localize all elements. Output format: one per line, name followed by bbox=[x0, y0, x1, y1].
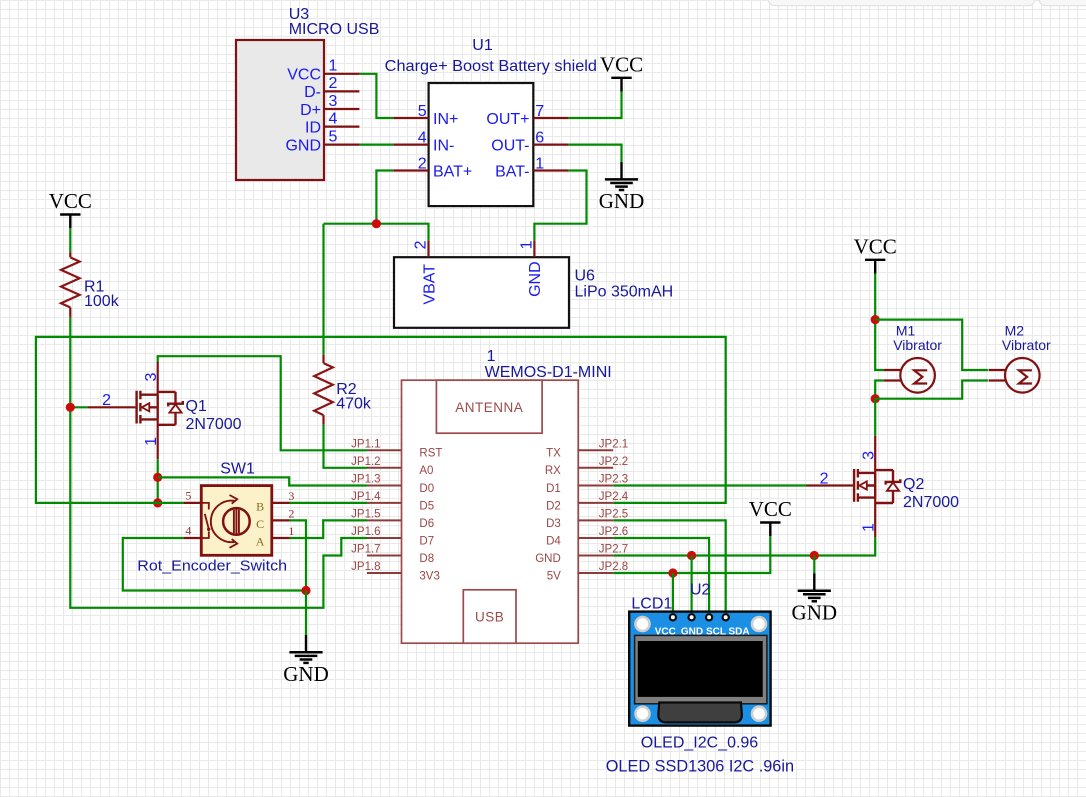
WEMOS pin JP1.4 D5 bbox=[351, 491, 434, 512]
svg-text:BAT-: BAT- bbox=[495, 163, 529, 180]
wire M1 low side bbox=[875, 381, 884, 399]
svg-text:4: 4 bbox=[329, 110, 338, 127]
svg-text:5V: 5V bbox=[547, 570, 561, 582]
wire Q1 gate wire bbox=[70, 406, 88, 408]
wire R1 to D7 net bbox=[70, 318, 367, 608]
wire JP2.3 to Q2 gate bbox=[613, 484, 806, 486]
svg-text:LiPo 350mAH: LiPo 350mAH bbox=[575, 284, 674, 301]
wire Q2 source to ground line bbox=[613, 537, 875, 555]
svg-text:100k: 100k bbox=[84, 293, 120, 310]
wire U1 OUT- to GND bbox=[569, 145, 622, 162]
svg-text:LCD1: LCD1 bbox=[631, 596, 672, 613]
toolbar remnant top edge bbox=[769, 0, 1086, 6]
connector U3 MICRO USB body bbox=[236, 6, 379, 180]
OLED screen frame bbox=[635, 635, 767, 703]
node Q1 source junction A bbox=[153, 473, 162, 482]
U1 pin 1 BAT- bbox=[495, 155, 569, 180]
svg-text:D6: D6 bbox=[419, 518, 434, 530]
OLED pin labels bbox=[655, 626, 750, 637]
U1 pin 7 OUT+ bbox=[486, 103, 568, 128]
wire Q1 source down bbox=[157, 459, 159, 503]
U3 pin 1 VCC bbox=[287, 58, 359, 84]
node 5V rail junction (OLED VCC) bbox=[668, 568, 677, 577]
WEMOS pin JP2.3 D1 bbox=[546, 474, 628, 495]
svg-text:A: A bbox=[256, 535, 265, 549]
wire VCC to JP2.8 rail bbox=[613, 536, 770, 573]
svg-text:GND: GND bbox=[599, 189, 645, 213]
U1 pin 6 OUT- bbox=[491, 130, 568, 155]
display LCD1 OLED module board bbox=[629, 612, 770, 726]
svg-text:GND: GND bbox=[681, 626, 703, 637]
wire motor rail to Q2 drain bbox=[874, 399, 876, 436]
wire JP2.5 to OLED SDA bbox=[613, 520, 726, 614]
wire SW1 C to ground bus bbox=[290, 520, 307, 590]
svg-text:D0: D0 bbox=[419, 483, 434, 495]
svg-text:1: 1 bbox=[487, 348, 496, 365]
Q1 pin 1 (source) bbox=[143, 419, 160, 459]
svg-text:B: B bbox=[256, 500, 264, 514]
U1 pin 4 IN- bbox=[393, 130, 454, 155]
U3 pin 3 D+ bbox=[300, 93, 359, 119]
node motor VCC junction bbox=[871, 315, 880, 324]
svg-text:4: 4 bbox=[185, 524, 191, 538]
svg-text:Vibrator: Vibrator bbox=[893, 337, 942, 353]
WEMOS pin JP2.6 D4 bbox=[546, 526, 628, 547]
svg-text:RX: RX bbox=[545, 465, 561, 477]
wire BAT+ rail to R2 bbox=[322, 224, 324, 355]
ground symbol GND (Q2/logic) bbox=[792, 573, 838, 624]
power symbol VCC (U1 output) bbox=[600, 52, 643, 91]
svg-text:D+: D+ bbox=[300, 102, 321, 119]
WEMOS pin JP2.4 D2 bbox=[546, 491, 629, 512]
svg-text:U1: U1 bbox=[472, 37, 493, 54]
svg-text:ID: ID bbox=[305, 119, 321, 136]
svg-text:TX: TX bbox=[546, 448, 561, 460]
svg-text:1: 1 bbox=[288, 524, 294, 538]
svg-text:IN+: IN+ bbox=[433, 111, 458, 128]
svg-text:MICRO USB: MICRO USB bbox=[289, 21, 380, 38]
svg-text:3: 3 bbox=[143, 373, 160, 382]
U3 pin 4 ID bbox=[305, 110, 359, 136]
OLED connector bbox=[658, 703, 742, 723]
node motor low junction bbox=[871, 394, 880, 403]
svg-text:1: 1 bbox=[535, 155, 544, 172]
power symbol VCC (motor supply) bbox=[854, 234, 897, 273]
resistor R2 470k bbox=[314, 355, 372, 425]
svg-text:2: 2 bbox=[820, 470, 829, 487]
node Q1 gate junction bbox=[66, 403, 75, 412]
svg-text:5: 5 bbox=[185, 489, 191, 503]
svg-text:GND: GND bbox=[283, 662, 329, 686]
svg-text:SW1: SW1 bbox=[220, 461, 255, 478]
wire R2 to JP1.2 bbox=[324, 425, 368, 468]
svg-text:2: 2 bbox=[413, 240, 430, 249]
svg-text:Q2: Q2 bbox=[903, 476, 924, 493]
svg-text:JP2.1: JP2.1 bbox=[599, 439, 628, 451]
Q1 pin 3 (drain) bbox=[143, 362, 160, 395]
svg-text:SCL: SCL bbox=[706, 626, 726, 637]
svg-text:GND: GND bbox=[535, 553, 561, 565]
wire motor top loop to M2 bbox=[875, 320, 988, 370]
svg-text:D3: D3 bbox=[546, 518, 561, 530]
svg-text:D2: D2 bbox=[546, 500, 561, 512]
U1 pin 2 BAT+ bbox=[393, 155, 472, 180]
transistor Q2 2N7000 bbox=[854, 469, 959, 511]
svg-text:5: 5 bbox=[418, 103, 427, 120]
svg-text:VBAT: VBAT bbox=[421, 264, 438, 305]
motor M1 Vibrator bbox=[884, 322, 942, 392]
SW1 push switch bbox=[201, 503, 210, 538]
transistor Q1 2N7000 bbox=[137, 391, 242, 433]
SW1 knob bbox=[211, 495, 250, 548]
wire U1 OUT+ to VCC bbox=[569, 92, 622, 119]
svg-text:Rot_Encoder_Switch: Rot_Encoder_Switch bbox=[137, 557, 287, 574]
wire U1 BAT- to U6 GND bbox=[534, 171, 586, 241]
SW1 pin 3 (B) bbox=[256, 489, 294, 514]
battery U6 LiPo 350mAH body bbox=[394, 257, 673, 328]
power symbol VCC (R1 pull-up) bbox=[49, 189, 92, 228]
svg-text:5: 5 bbox=[329, 128, 338, 145]
wire bus SW1/Q1 to JP2.4 bbox=[36, 337, 726, 503]
svg-text:7: 7 bbox=[535, 103, 544, 120]
svg-text:VCC: VCC bbox=[655, 626, 676, 637]
WEMOS pin JP2.8 5V bbox=[547, 561, 629, 582]
U6 pin 1 GND bbox=[518, 240, 544, 297]
svg-text:JP1.6: JP1.6 bbox=[351, 526, 380, 538]
svg-text:3: 3 bbox=[329, 93, 338, 110]
svg-text:JP2.2: JP2.2 bbox=[599, 456, 628, 468]
wire VCC to motor rail bbox=[875, 274, 884, 371]
module U? WEMOS-D1-MINI body bbox=[402, 348, 612, 643]
node Q1 source junction B bbox=[153, 498, 162, 507]
svg-text:2N7000: 2N7000 bbox=[186, 416, 242, 433]
svg-text:C: C bbox=[256, 517, 264, 531]
svg-text:JP2.8: JP2.8 bbox=[599, 561, 628, 573]
WEMOS pin JP1.1 RST bbox=[351, 439, 442, 460]
svg-text:JP1.7: JP1.7 bbox=[351, 544, 380, 556]
SW1 pin 2 (C) bbox=[256, 507, 294, 532]
svg-text:4: 4 bbox=[418, 130, 427, 147]
Q2 pin 2 (gate) bbox=[807, 470, 853, 487]
Q1 pin 2 (gate) bbox=[88, 392, 135, 409]
wire OLED VCC riser bbox=[672, 573, 674, 614]
svg-text:U2: U2 bbox=[690, 581, 711, 598]
node SW1 ground junction bbox=[301, 586, 310, 595]
svg-text:JP2.3: JP2.3 bbox=[599, 474, 628, 486]
WEMOS pin JP2.2 RX bbox=[545, 456, 628, 477]
svg-text:SDA: SDA bbox=[728, 626, 749, 637]
wire U3 GND to U1 IN- bbox=[359, 144, 393, 146]
svg-text:USB: USB bbox=[475, 610, 504, 625]
svg-text:1: 1 bbox=[518, 240, 535, 249]
WEMOS pin JP1.7 D8 bbox=[351, 544, 434, 565]
SW1 pin 5 bbox=[184, 489, 202, 503]
svg-text:GND: GND bbox=[285, 137, 321, 154]
OLED pin holes bbox=[670, 614, 729, 620]
svg-text:VCC: VCC bbox=[49, 189, 92, 213]
SW1 pin 1 (A) bbox=[256, 524, 295, 549]
wire Q1 source to JP1.3 bbox=[158, 477, 367, 485]
WEMOS pin JP2.1 TX bbox=[546, 439, 628, 460]
svg-text:2: 2 bbox=[418, 155, 427, 172]
svg-text:D1: D1 bbox=[546, 483, 561, 495]
WEMOS pin JP1.5 D6 bbox=[351, 509, 434, 530]
svg-text:3: 3 bbox=[288, 489, 294, 503]
svg-text:JP2.4: JP2.4 bbox=[599, 491, 629, 503]
wire Q1 drain to JP1.1 bbox=[158, 356, 367, 450]
SW1 pin 4 bbox=[184, 524, 202, 538]
svg-text:2: 2 bbox=[288, 507, 294, 521]
svg-text:VCC: VCC bbox=[749, 497, 792, 521]
svg-text:GND: GND bbox=[527, 261, 544, 297]
svg-text:D5: D5 bbox=[419, 500, 434, 512]
svg-text:2: 2 bbox=[102, 392, 111, 409]
wire motor low loop to M2 bbox=[875, 381, 988, 399]
IC U1 Charge+ Boost Battery shield body bbox=[385, 37, 597, 206]
svg-text:3V3: 3V3 bbox=[419, 570, 439, 582]
svg-text:Charge+ Boost Battery shield: Charge+ Boost Battery shield bbox=[385, 58, 597, 75]
svg-text:RST: RST bbox=[419, 448, 442, 460]
svg-text:JP1.5: JP1.5 bbox=[351, 509, 380, 521]
svg-text:470k: 470k bbox=[336, 396, 372, 413]
Q2 pin 1 (source) bbox=[861, 498, 878, 538]
svg-text:WEMOS-D1-MINI: WEMOS-D1-MINI bbox=[485, 364, 612, 381]
svg-text:Q1: Q1 bbox=[186, 398, 207, 415]
wire OLED GND riser bbox=[690, 556, 692, 615]
wire SW1 B to JP1.4 bbox=[290, 502, 368, 504]
U6 pin 2 VBAT bbox=[413, 240, 439, 304]
wire U1 BAT+ to battery node bbox=[376, 171, 393, 224]
wire SW1 switch to ground bus bbox=[123, 538, 306, 591]
svg-text:JP2.5: JP2.5 bbox=[599, 509, 628, 521]
wire SW1 A to JP1.5 bbox=[290, 520, 368, 538]
svg-text:OUT+: OUT+ bbox=[486, 111, 529, 128]
svg-text:IN-: IN- bbox=[433, 137, 454, 154]
motor M2 Vibrator bbox=[989, 322, 1051, 392]
svg-text:D8: D8 bbox=[419, 553, 434, 565]
rotary encoder SW1 body bbox=[137, 461, 287, 575]
wire JP2.6 to OLED SCL bbox=[613, 538, 709, 614]
svg-text:3: 3 bbox=[861, 451, 878, 460]
svg-text:U6: U6 bbox=[575, 268, 596, 285]
WEMOS pin JP1.2 A0 bbox=[351, 456, 433, 477]
svg-text:M2: M2 bbox=[1005, 322, 1025, 338]
svg-text:ANTENNA: ANTENNA bbox=[455, 400, 523, 415]
svg-text:OUT-: OUT- bbox=[491, 137, 529, 154]
WEMOS pin JP2.5 D3 bbox=[546, 509, 628, 530]
svg-text:JP2.6: JP2.6 bbox=[599, 526, 628, 538]
WEMOS pin JP1.6 D7 bbox=[351, 526, 434, 547]
svg-text:JP1.8: JP1.8 bbox=[351, 561, 380, 573]
svg-text:Vibrator: Vibrator bbox=[1002, 337, 1051, 353]
node ground line junction (OLED) bbox=[687, 551, 696, 560]
svg-text:D7: D7 bbox=[419, 535, 434, 547]
svg-text:GND: GND bbox=[792, 600, 838, 624]
U3 pin 2 D- bbox=[304, 75, 359, 101]
wire U3 VCC to U1 IN+ bbox=[359, 74, 393, 118]
svg-text:M1: M1 bbox=[896, 322, 916, 338]
svg-text:OLED_I2C_0.96: OLED_I2C_0.96 bbox=[641, 734, 759, 751]
power symbol VCC (5V rail) bbox=[749, 497, 792, 536]
svg-text:D4: D4 bbox=[546, 535, 561, 547]
svg-text:JP1.2: JP1.2 bbox=[351, 456, 380, 468]
node BAT+ junction bbox=[372, 219, 381, 228]
U1 pin 5 IN+ bbox=[393, 103, 458, 128]
OLED mounting holes bbox=[636, 617, 767, 721]
LCD1 labels bbox=[606, 581, 794, 775]
Q2 pin 3 (drain) bbox=[861, 436, 878, 473]
svg-text:JP1.1: JP1.1 bbox=[351, 439, 380, 451]
wire GND symbol drop bbox=[813, 556, 815, 574]
WEMOS pin JP1.3 D0 bbox=[351, 474, 434, 495]
wire battery positive rail bbox=[324, 224, 429, 241]
svg-text:2: 2 bbox=[329, 75, 338, 92]
svg-text:VCC: VCC bbox=[287, 67, 321, 84]
node ground line junction (GND symbol) bbox=[810, 551, 819, 560]
U3 pin 5 GND bbox=[285, 128, 359, 154]
WEMOS pin JP1.8 3V3 bbox=[351, 561, 440, 582]
ground symbol GND (U1 output) bbox=[599, 162, 645, 213]
svg-text:A0: A0 bbox=[419, 465, 433, 477]
svg-text:1: 1 bbox=[861, 523, 878, 532]
svg-text:D-: D- bbox=[304, 84, 321, 101]
svg-text:JP1.4: JP1.4 bbox=[351, 491, 381, 503]
WEMOS pin JP2.7 GND bbox=[535, 544, 628, 565]
svg-text:VCC: VCC bbox=[600, 52, 643, 76]
wire ground bus drop bbox=[305, 591, 307, 635]
svg-text:1: 1 bbox=[329, 58, 338, 75]
ground symbol GND (SW1) bbox=[283, 635, 329, 686]
resistor R1 100k bbox=[61, 252, 120, 317]
svg-text:1: 1 bbox=[143, 437, 160, 446]
svg-text:6: 6 bbox=[535, 130, 544, 147]
svg-text:VCC: VCC bbox=[854, 234, 897, 258]
svg-text:OLED SSD1306 I2C .96in: OLED SSD1306 I2C .96in bbox=[606, 757, 794, 775]
wire VCC to R1 bbox=[69, 228, 71, 252]
svg-text:BAT+: BAT+ bbox=[433, 163, 472, 180]
svg-text:JP2.7: JP2.7 bbox=[599, 544, 628, 556]
svg-text:JP1.3: JP1.3 bbox=[351, 474, 380, 486]
svg-text:2N7000: 2N7000 bbox=[903, 494, 959, 511]
